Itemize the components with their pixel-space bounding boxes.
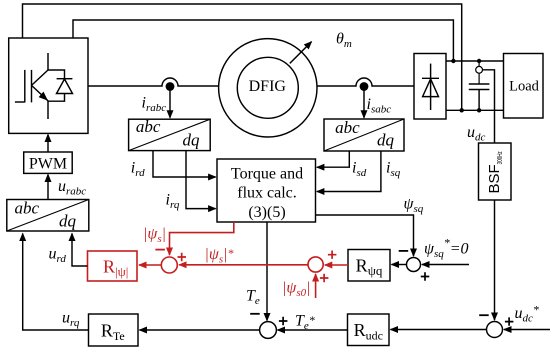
wire DC+ top line from converter to bottom bus: [23, 4, 462, 110]
svg-text:|ψs0|: |ψs0|: [282, 280, 311, 300]
wire udc junction to R_udc: [391, 329, 487, 331]
controller R_psiq block: [348, 250, 390, 282]
controller R_Te block: [89, 314, 139, 346]
svg-text:udc*: udc*: [515, 303, 539, 325]
label plus at psi junction: [421, 272, 430, 280]
wire BSF to udc summing junction: [494, 200, 496, 320]
wire DC- second line from converter to top bus: [73, 20, 453, 61]
wire (red) psi_s feedback from torque block: [170, 222, 234, 255]
svg-text:ψsq*=0: ψsq*=0: [424, 236, 469, 261]
label plus bottom at red circle 2: [320, 274, 329, 282]
label plus top at red circle 2: [328, 251, 337, 259]
svg-text:isabc: isabc: [367, 96, 392, 116]
band stop filter BSF 300Hz block: [479, 143, 512, 200]
node junction dot top bus left: [451, 59, 455, 63]
label minus at red circle 1: [155, 249, 165, 251]
svg-text:udc: udc: [467, 124, 486, 144]
svg-text:urd: urd: [49, 246, 67, 266]
svg-text:Load: Load: [509, 78, 540, 94]
diode inside rectifier: [422, 64, 439, 110]
svg-text:ird: ird: [131, 160, 145, 180]
wire DC top bus: [446, 60, 504, 62]
svg-text:dq: dq: [377, 131, 395, 150]
svg-text:ψsq: ψsq: [404, 196, 424, 216]
wire i_rq into torque block: [186, 151, 216, 209]
diode (anti-parallel) inside converter: [48, 70, 73, 101]
wire i_rd into torque block: [153, 151, 216, 177]
capacitor C: [469, 84, 490, 110]
summing junction (red) circle 2: [308, 257, 323, 272]
label plus at udc junction: [505, 317, 514, 325]
svg-text:Te: Te: [246, 288, 260, 308]
svg-text:irabc: irabc: [142, 94, 167, 114]
wire R_udc to Te junction, T_e*: [278, 329, 348, 331]
svg-text:Te*: Te*: [295, 313, 315, 333]
svg-text:isd: isd: [352, 160, 367, 180]
wire u_rq from R_Te to dq/abc: [23, 234, 89, 331]
wire rotor phase wire converter to DFIG: [88, 78, 219, 86]
node junction dot bottom bus left: [460, 108, 464, 112]
wire stator phase wire DFIG to rectifier: [317, 78, 414, 86]
svg-text:abc: abc: [335, 118, 360, 137]
wire (red) circle 1 to R_psi: [139, 264, 161, 266]
wire PWM to converter: [47, 135, 49, 153]
svg-text:(3)(5): (3)(5): [248, 204, 285, 221]
wire DC bottom bus: [446, 109, 504, 111]
svg-text:R|ψ|: R|ψ|: [103, 256, 128, 279]
summing junction udc: [487, 322, 503, 338]
svg-text:RTe: RTe: [101, 320, 125, 343]
node stator current sensor dot: [360, 82, 369, 91]
svg-text:BSF300Hz: BSF300Hz: [486, 151, 504, 193]
svg-text:abc: abc: [136, 117, 161, 136]
label plus at Te junction: [279, 317, 288, 325]
wire sensor to rotor abc/dq, i_rabc: [169, 86, 171, 118]
svg-text:|ψs|: |ψs|: [143, 226, 166, 246]
node junction dot bottom bus capacitor: [477, 108, 481, 112]
wire psi junction to R_psiq: [392, 264, 407, 266]
svg-text:dq: dq: [59, 212, 77, 231]
converter box (rotor-side converter): [9, 38, 88, 133]
label minus at Te junction: [250, 313, 260, 315]
label minus at udc junction: [479, 314, 489, 316]
wire u_dc sense from sensor to BSF: [483, 70, 495, 143]
svg-text:DFIG: DFIG: [249, 78, 287, 95]
wire i_sd into torque block: [317, 151, 349, 167]
DFIG machine inner circle: [237, 57, 298, 118]
svg-text:Torque and: Torque and: [231, 165, 303, 182]
svg-text:isq: isq: [386, 160, 401, 180]
PWM block: [24, 152, 72, 173]
dq to abc transform block (left): [7, 199, 89, 232]
label minus at psi junction: [399, 250, 409, 252]
wire i_sq into torque block: [317, 151, 381, 192]
Load block: [504, 54, 544, 119]
abc to dq transform block (rotor): [129, 117, 211, 150]
svg-text:flux calc.: flux calc.: [237, 185, 297, 202]
wire Te junction to R_Te: [140, 329, 261, 331]
summing junction Te: [260, 322, 277, 339]
controller R_psi block (red): [88, 251, 138, 281]
summing junction (red) circle 1: [161, 257, 177, 273]
svg-text:Rψq: Rψq: [356, 256, 383, 279]
svg-text:irq: irq: [166, 192, 180, 212]
abc to dq transform block (stator): [324, 118, 404, 151]
node rotor current sensor dot: [166, 82, 175, 91]
svg-text:dq: dq: [183, 131, 201, 150]
svg-text:PWM: PWM: [29, 156, 67, 173]
wire psi_sq*=0 reference input: [422, 264, 469, 266]
svg-text:abc: abc: [15, 199, 40, 218]
shaft arrow theta_m: [290, 42, 312, 64]
wire udc* reference input: [504, 329, 550, 331]
controller R_udc block: [348, 314, 390, 346]
torque and flux calculator block: [217, 159, 316, 222]
node junction dot top bus capacitor: [477, 59, 481, 63]
wire T_e from torque block to Te junction: [266, 222, 268, 321]
svg-text:urq: urq: [62, 310, 80, 330]
wire (red) R_psiq to summing circle 2: [325, 264, 348, 266]
transistor IGBT symbol inside converter: [15, 53, 48, 119]
wire (red) circle2 to circle1 psi_s*: [179, 264, 308, 266]
wire sensor to stator abc/dq, i_sabc: [363, 86, 365, 118]
DFIG machine outer circle: [219, 39, 317, 137]
wire u_rd from R_psi to dq/abc: [72, 234, 88, 267]
svg-text:Rudc: Rudc: [354, 320, 383, 343]
summing junction psi_sq: [407, 258, 421, 272]
voltage sensor circle on capacitor branch: [476, 61, 483, 84]
svg-text:urabc: urabc: [58, 178, 86, 198]
wire dq/abc to PWM, u_rabc: [47, 175, 49, 200]
rectifier box: [414, 54, 446, 120]
svg-text:|ψs|*: |ψs|*: [205, 246, 234, 266]
wire psi_sq from torque block to psi junction: [316, 215, 414, 256]
svg-text:θm: θm: [336, 31, 352, 51]
label plus at red circle 1: [178, 253, 187, 261]
wire (red) psi_s0 constant input: [315, 274, 317, 298]
